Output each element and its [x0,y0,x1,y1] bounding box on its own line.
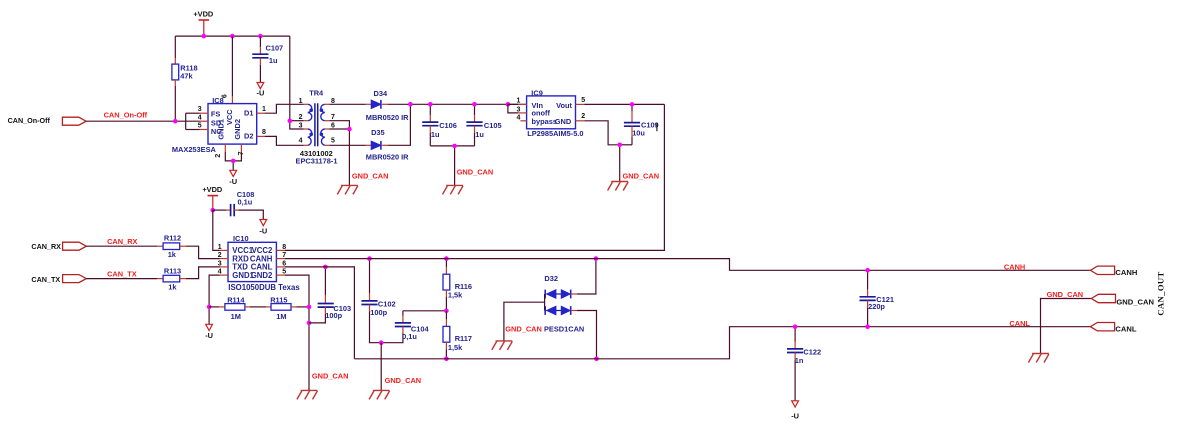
svg-text:C107: C107 [266,44,284,53]
ground GND_CAN under D32 [496,340,513,342]
svg-text:6: 6 [222,94,229,98]
wire D2 to TR4 pin4 [265,136,304,145]
svg-text:-U: -U [205,331,213,340]
junction VDD-IC8 [230,34,235,39]
ground GND_CAN under TR4 [341,184,358,186]
svg-text:3: 3 [198,106,202,113]
wire R118 to CAN_On-Off net [174,80,176,86]
svg-text:ISO1050DUB Texas: ISO1050DUB Texas [228,283,300,292]
junction GND2-R115 [307,305,312,310]
capacitor C109 [631,104,633,111]
capacitor C103 [324,267,326,295]
port GND_CAN out [1091,294,1115,302]
svg-text:-U: -U [256,88,264,97]
wire IC10 GND1 down [209,275,219,324]
svg-text:1: 1 [299,98,303,105]
wire Vin-onoff tie [508,104,518,113]
svg-text:100p: 100p [325,311,342,320]
wire TR4 secondary center to gnd [329,121,349,129]
resistor R114 [225,304,245,311]
wire R113 to TXD [180,278,186,280]
svg-text:1u: 1u [431,130,440,139]
svg-text:1n: 1n [795,356,804,365]
wire CAN_On-Off [86,120,199,122]
svg-text:R113: R113 [164,266,181,275]
ground GND_CAN under C105 [446,184,463,186]
svg-text:CAN_TX: CAN_TX [31,275,60,284]
svg-text:3: 3 [516,106,520,113]
diode D32 lower pair [544,306,546,315]
svg-text:10u: 10u [632,129,645,138]
junction TR4 primary center [288,119,293,124]
svg-text:R117: R117 [455,334,472,343]
svg-text:1u: 1u [475,130,484,139]
wire GND1 to R114 [209,306,219,308]
junction C102-CANH row [367,256,372,261]
svg-text:GND_CAN: GND_CAN [312,371,349,380]
svg-text:5: 5 [198,123,202,130]
junction VDD-C107 [258,34,263,39]
svg-text:IC10: IC10 [233,234,249,243]
junction GND2-C103 [307,321,312,326]
junction C102-C104 gnd [379,340,384,345]
svg-text:1M: 1M [231,312,241,321]
wire TR4 pin8 to D34 [329,103,365,105]
svg-text:CAN_On-Off: CAN_On-Off [8,116,51,125]
svg-text:220p: 220p [868,302,885,311]
svg-text:GND_CAN: GND_CAN [1116,297,1154,306]
svg-text:D2: D2 [244,131,253,140]
junction IC8 gnd [231,159,236,164]
svg-text:5: 5 [581,97,585,104]
wire D35 cathode up to rail [382,144,388,146]
svg-text:CAN_RX: CAN_RX [107,237,137,246]
ground GND_CAN under C109 [611,181,628,183]
wire D32 upper to CANH [571,293,577,295]
transformer TR4 secondary winding 2 [321,129,325,145]
svg-text:100p: 100p [370,308,387,317]
svg-text:CANL: CANL [1115,325,1136,334]
junction C106 top [428,102,433,107]
wire CAN_TX to R113 [86,278,157,280]
svg-text:R114: R114 [227,296,245,305]
svg-text:1M: 1M [276,312,286,321]
wire isolated 5V down to IC10 pin8 [285,104,664,250]
power -U under C122 [792,401,799,407]
svg-text:+VDD: +VDD [202,185,223,194]
junction cap gnd [452,144,457,149]
capacitor C102 [369,259,371,293]
svg-text:FS: FS [211,109,221,118]
ground GND_CAN under IC10 [301,389,318,391]
svg-text:LP2985AIM5-5.0: LP2985AIM5-5.0 [527,129,583,138]
wire R114-R115 [245,306,250,308]
junction R116-R117 mid [444,309,449,314]
transformer TR4 primary winding 2 [308,129,312,145]
svg-text:D32: D32 [544,274,558,283]
junction VDD-C108 [211,208,216,213]
svg-text:C105: C105 [484,121,502,130]
ground GND_CAN right [1032,353,1049,355]
svg-text:TR4: TR4 [309,89,324,98]
transformer TR4 primary winding [308,104,312,120]
wire tie pins 3-4-5 [186,112,200,114]
junction GND1-R114 [207,305,212,310]
diode D32 upper pair [544,290,546,299]
svg-text:GND_CAN: GND_CAN [352,171,389,180]
resistor R116 [445,259,447,268]
junction C109 gnd [617,143,622,148]
svg-text:GND_CAN: GND_CAN [457,167,494,176]
junction D32-CANH [594,256,599,261]
regulator IC9 body [527,96,576,129]
wire CANL pin6 run [285,267,354,359]
svg-text:PESD1CAN: PESD1CAN [544,325,584,334]
svg-text:2: 2 [299,114,303,121]
junction D35-rail [408,102,413,107]
junction VDD-R118 [202,34,207,39]
svg-text:R115: R115 [270,296,287,305]
svg-text:1k: 1k [168,250,177,259]
svg-text:bypass: bypass [532,117,557,126]
capacitor C121 [867,270,869,289]
svg-text:8: 8 [282,244,286,251]
svg-text:CANH: CANH [1004,262,1025,271]
wire TR4 center tap primary [290,120,304,122]
svg-text:4: 4 [198,114,202,121]
wire R118 branch [174,36,176,58]
svg-text:GND_CAN: GND_CAN [1047,290,1084,299]
junction C105 top [472,102,477,107]
svg-text:GND2: GND2 [251,271,273,280]
svg-text:1,5k: 1,5k [448,290,463,299]
svg-text:1,5k: 1,5k [448,343,463,352]
svg-text:D35: D35 [371,128,385,137]
power -U under GND1 [206,324,213,330]
power -U under IC8 [230,170,237,176]
svg-text:4: 4 [516,115,520,122]
svg-text:GND_CAN: GND_CAN [623,172,660,181]
wire VDD top rail [175,35,289,37]
svg-text:EPC31178-1: EPC31178-1 [296,157,338,166]
ground GND_CAN under C102 [373,389,390,391]
svg-text:+VDD: +VDD [193,10,214,19]
junction C109 top [630,102,635,107]
wire Vout rail [584,103,664,105]
junction C121 bottom [865,324,870,329]
wire D1 to TR4 pin1 [265,104,304,113]
svg-text:C122: C122 [803,347,821,356]
svg-text:-U: -U [259,226,267,235]
capacitor C122 [794,327,796,342]
junction C103-CANL row [323,265,328,270]
wire C109 bottom to gnd [620,144,632,146]
svg-text:GND2: GND2 [233,119,242,140]
svg-text:3: 3 [299,122,303,129]
wire CANL bottom rail [354,327,1090,359]
svg-text:7: 7 [331,114,335,121]
svg-text:-U: -U [229,177,237,186]
svg-text:MBR0520 IR: MBR0520 IR [366,153,409,162]
junction R117 bottom [444,357,449,362]
svg-text:0,1u: 0,1u [402,332,417,341]
port CANH out [1090,266,1114,274]
resistor R113 [163,275,180,282]
svg-text:IC9: IC9 [531,88,543,97]
junction TR4 secondary center [347,127,352,132]
wire C104 to resistor divider [403,310,447,312]
svg-text:2: 2 [215,154,222,158]
port CANL out [1090,323,1114,331]
wire CAN_RX to R112 [86,245,157,247]
wire D32 common to gnd [544,294,546,311]
svg-text:4: 4 [299,137,303,144]
svg-text:0,1u: 0,1u [238,198,253,207]
transformer TR4 secondary winding [321,104,325,120]
svg-text:GND: GND [555,117,572,126]
wire IC10 GND2 down to gnd [285,275,309,390]
wire IC9 gnd [584,121,619,145]
svg-text:GND_CAN: GND_CAN [505,325,542,334]
svg-text:1: 1 [218,244,222,251]
junction C122 top [793,324,798,329]
wire GND_CAN right [1041,299,1092,354]
svg-text:D1: D1 [244,108,253,117]
svg-text:CAN_On-Off: CAN_On-Off [104,110,148,119]
svg-text:1k: 1k [168,282,177,291]
svg-text:CANH: CANH [1115,268,1137,277]
power -U under C107 [257,83,264,89]
svg-text:1u: 1u [269,56,278,65]
svg-text:1: 1 [516,98,520,105]
svg-text:47k: 47k [180,72,193,81]
power -U right of C108 [260,220,267,226]
wire D32 lower to CANL [571,310,577,312]
junction R116 top [444,256,449,261]
transformer TR4 core [314,103,316,146]
wire R115 to GND2 net [291,306,297,308]
capacitor C107 [259,36,261,47]
junction D32-CANL [594,357,599,362]
svg-text:C106: C106 [439,121,457,130]
svg-text:5: 5 [331,137,335,144]
wire D34 cathode to +5V rail [382,103,388,105]
resistor R112 [163,243,180,250]
svg-text:8: 8 [262,129,266,136]
svg-text:2: 2 [581,113,585,120]
text cursor artifact [656,123,658,132]
resistor R117 [445,311,447,320]
svg-text:Vout: Vout [556,101,572,110]
svg-text:GND_CAN: GND_CAN [385,376,422,385]
svg-text:CANL: CANL [1009,319,1030,328]
capacitor C104 [402,311,404,316]
wire VDD to TR4 center tap [289,36,291,121]
wire R112 to RXD [180,245,186,247]
wire CANH rail [285,259,1090,271]
junction C121 top [865,268,870,273]
svg-text:MAX253ESA: MAX253ESA [172,145,217,154]
wire TR4 pin5 to D35 [329,144,365,146]
transceiver IC10 body [228,242,276,281]
svg-text:CAN_OUT: CAN_OUT [1156,271,1166,315]
junction IC9 input [506,102,511,107]
svg-text:-U: -U [791,411,799,420]
resistor R118 [172,64,179,80]
capacitor C105 [474,104,476,115]
junction R118 net [173,119,178,124]
wire IC8 VCC pin6 [231,36,233,96]
op-amp IC8 MAX253ESA body [208,104,257,145]
wire IC8 grounds join [225,152,241,161]
capacitor C106 [429,104,431,115]
svg-text:1: 1 [262,106,266,113]
svg-text:CAN_TX: CAN_TX [107,269,137,278]
svg-text:GND1: GND1 [216,119,225,140]
svg-text:MBR0520 IR: MBR0520 IR [366,113,409,122]
resistor R115 [271,304,291,311]
wire C106-C105 ground bus [430,145,474,147]
wire VDD to IC10 pin1 [213,210,220,250]
svg-text:R112: R112 [164,234,181,243]
svg-text:CAN_RX: CAN_RX [31,242,61,251]
svg-text:D34: D34 [374,89,388,98]
